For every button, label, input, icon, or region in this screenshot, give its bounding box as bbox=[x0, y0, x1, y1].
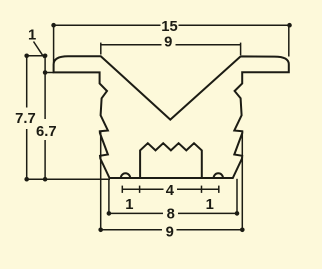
dim 9 bottom: body outer width bbox=[101, 131, 243, 230]
dim 7.7 end dots bbox=[24, 54, 29, 59]
dim 4 / 1 / 1 tick dimension line bbox=[122, 186, 219, 193]
dim 7.7 top reference line bbox=[27, 55, 45, 57]
dim 9 bottom dots bbox=[98, 228, 103, 233]
dim 9 bottom right extension line bbox=[241, 131, 243, 230]
dim 8: bottom plate width bbox=[109, 179, 237, 214]
dim 15 right extension line bbox=[288, 25, 290, 56]
dim 15: top width dimension line bbox=[54, 25, 290, 62]
svg-text:1: 1 bbox=[206, 197, 214, 213]
extrusion profile outline bbox=[54, 56, 289, 178]
dim 8 left extension line bbox=[108, 179, 110, 214]
dim 15 left extension line bbox=[53, 25, 55, 62]
tick marks bbox=[121, 186, 123, 193]
dim 8 dots bbox=[107, 211, 112, 216]
bottom face line bbox=[109, 177, 232, 179]
leader line for label 1 bbox=[34, 42, 45, 58]
svg-text:9: 9 bbox=[164, 34, 172, 50]
dim 9 top left extension line bbox=[100, 43, 102, 55]
svg-text:15: 15 bbox=[161, 19, 177, 35]
svg-text:7.7: 7.7 bbox=[15, 111, 36, 127]
svg-text:9: 9 bbox=[166, 225, 174, 241]
svg-text:4: 4 bbox=[166, 183, 175, 199]
dim 7.7: overall height dimension bbox=[27, 56, 45, 179]
dim 9 top: V opening dimension bbox=[101, 43, 241, 56]
svg-text:8: 8 bbox=[167, 207, 175, 223]
svg-text:6.7: 6.7 bbox=[36, 124, 57, 140]
dim 8 right extension line bbox=[236, 179, 238, 214]
dim 6.7 dots bbox=[43, 54, 48, 59]
dim 15 end dots bbox=[51, 23, 56, 28]
dim 9 bottom left extension line bbox=[100, 131, 102, 230]
svg-text:1: 1 bbox=[28, 27, 36, 43]
dim 6.7: inner height dimension bbox=[45, 56, 54, 179]
dim 9 top right extension line bbox=[240, 43, 242, 56]
svg-text:1: 1 bbox=[125, 197, 133, 213]
bottom reference line to profile bbox=[27, 178, 110, 180]
dim 6.7 reference line to profile bbox=[45, 72, 54, 74]
